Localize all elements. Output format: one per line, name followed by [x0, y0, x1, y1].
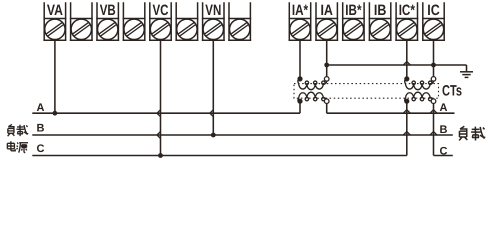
CT2 secondary winding	[405, 79, 434, 90]
terminal VC	[150, 3, 171, 40]
crossover CT2 left stub over line B	[403, 132, 410, 136]
CT2 primary polarity dot	[404, 99, 409, 104]
svg-text:B: B	[37, 123, 45, 135]
phase line B	[32, 134, 453, 136]
CT2 secondary polarity dot	[404, 76, 409, 81]
terminal IB*	[343, 3, 364, 40]
svg-text:VC: VC	[153, 2, 169, 19]
CT2 primary stub right	[433, 103, 435, 155]
label 负载 right	[459, 126, 467, 140]
junction VC-line C	[158, 153, 163, 158]
crossover CT2 right stub over line A	[430, 110, 437, 114]
crossover VC wire over line B	[157, 132, 161, 139]
crossover VC wire over line A	[157, 110, 161, 117]
CTs dashed enclosure	[294, 84, 439, 99]
wire VA to line A	[54, 40, 56, 113]
circuit: 3-phase 3-wire meter wiring diagram with 2 CTs	[0, 0, 488, 164]
junction VA-line A	[53, 111, 58, 116]
svg-text:B: B	[440, 124, 448, 136]
CT1 secondary winding	[298, 79, 327, 90]
phase line C left segment	[32, 155, 407, 157]
crossover CT2 left stub over line A	[403, 110, 410, 114]
wire VN to line B	[212, 40, 214, 135]
svg-text:IB: IB	[374, 2, 387, 19]
svg-text:IC*: IC*	[399, 2, 415, 19]
terminal unlabeled	[71, 3, 92, 40]
wire VC to line C	[160, 40, 162, 155]
label 负载 left	[8, 124, 15, 136]
phase line A left segment	[32, 112, 300, 114]
terminal IC*	[396, 3, 417, 40]
svg-text:VN: VN	[205, 2, 221, 19]
svg-text:IB*: IB*	[345, 2, 361, 19]
wire IC* to CT2 secondary	[406, 40, 408, 79]
svg-text:CTs: CTs	[442, 83, 462, 100]
terminal unlabeled	[123, 3, 144, 40]
terminal unlabeled	[229, 3, 250, 40]
CT2 primary terminal circle	[431, 99, 436, 104]
terminal VN	[203, 3, 224, 40]
junction VN-line B	[211, 133, 216, 138]
crossover CT2 right stub over line B	[430, 132, 437, 136]
svg-text:C: C	[440, 146, 448, 158]
svg-text:IA*: IA*	[292, 2, 308, 19]
terminal unlabeled	[176, 3, 197, 40]
CT1 primary polarity dot	[297, 99, 302, 104]
svg-text:IA: IA	[320, 2, 333, 19]
wire IA* to CT1 secondary	[299, 40, 301, 79]
wire IA to CT1 secondary and ground bus	[326, 40, 328, 76]
wire IC to CT2 secondary and ground bus	[433, 40, 435, 76]
CT2 primary stub left (line C rises into CT2)	[406, 101, 408, 155]
svg-text:IC: IC	[427, 2, 440, 19]
terminal IC	[423, 3, 444, 40]
CT2 secondary terminal circle	[431, 77, 436, 82]
crossover IC* wire over ground bus	[403, 62, 410, 66]
ground bus wire	[327, 64, 467, 66]
CT1 primary stub left (line A rises into CT1)	[299, 101, 301, 113]
CT2 primary winding	[405, 92, 434, 101]
CT1 primary winding	[298, 92, 327, 101]
CT1 primary terminal circle	[324, 99, 329, 104]
CT1 secondary terminal circle	[324, 77, 329, 82]
junction IC-ground bus	[431, 63, 436, 68]
terminal IA*	[289, 3, 310, 40]
label 电源 left	[7, 141, 15, 151]
svg-text:A: A	[440, 102, 448, 114]
junction IA-ground bus	[324, 63, 329, 68]
crossover VN wire over line A	[210, 110, 214, 117]
CT1 primary stub right	[326, 103, 328, 113]
svg-text:A: A	[37, 102, 45, 114]
terminal IA	[316, 3, 337, 40]
phase line C right segment	[434, 155, 453, 157]
terminal IB	[369, 3, 390, 40]
svg-text:VA: VA	[47, 2, 63, 19]
svg-text:C: C	[37, 143, 45, 155]
terminal VB	[97, 3, 118, 40]
terminal VA	[44, 3, 65, 40]
ground symbol	[460, 72, 473, 78]
CT1 secondary polarity dot	[297, 76, 302, 81]
phase line A right segment	[327, 112, 455, 114]
svg-text:VB: VB	[100, 2, 116, 19]
